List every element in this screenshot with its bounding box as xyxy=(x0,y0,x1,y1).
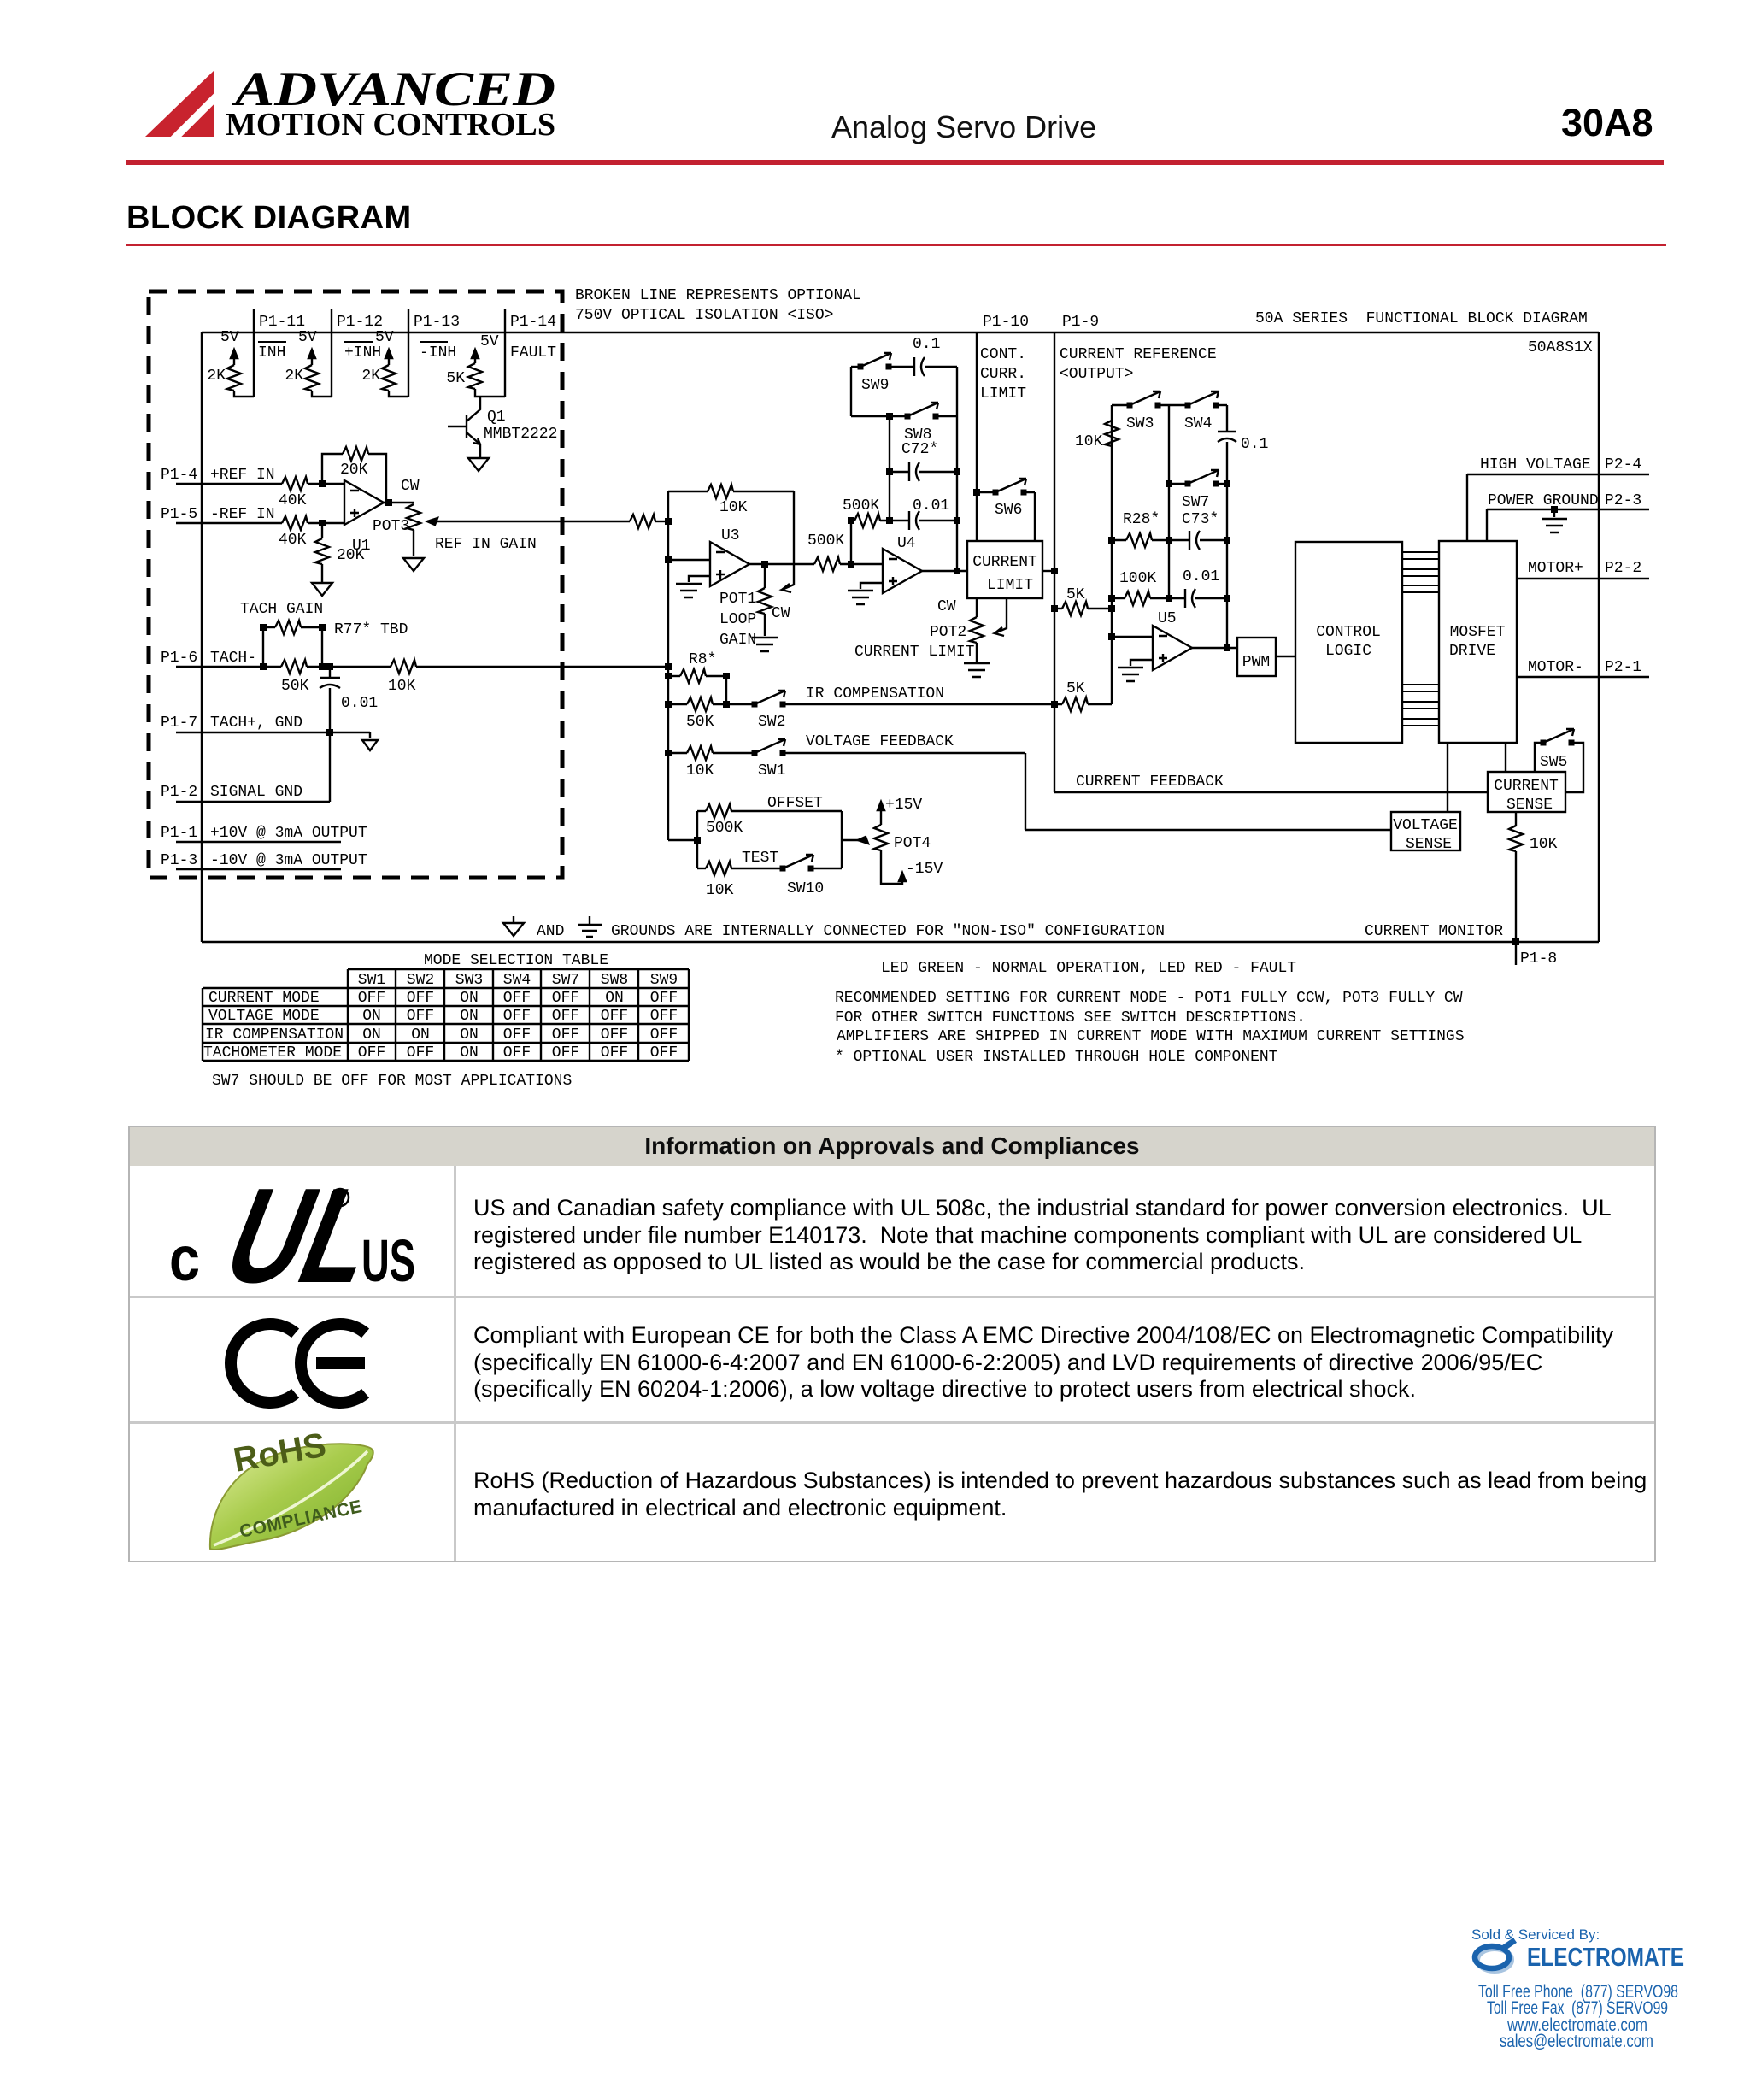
svg-text:2K: 2K xyxy=(361,368,380,385)
svg-text:10K: 10K xyxy=(388,678,416,695)
svg-text:RECOMMENDED SETTING FOR CURREN: RECOMMENDED SETTING FOR CURRENT MODE - P… xyxy=(835,990,1463,1007)
svg-text:FAULT: FAULT xyxy=(510,344,556,362)
svg-text:OFF: OFF xyxy=(407,1008,434,1025)
svg-text:ON: ON xyxy=(460,1026,479,1044)
svg-text:sales@electromate.com: sales@electromate.com xyxy=(1500,2032,1653,2051)
svg-text:-15V: -15V xyxy=(906,861,943,878)
svg-text:SW2: SW2 xyxy=(407,972,434,989)
svg-text:ELECTROMATE: ELECTROMATE xyxy=(1527,1942,1684,1972)
svg-text:P1-6: P1-6 xyxy=(161,650,197,667)
svg-text:Sold & Serviced By:: Sold & Serviced By: xyxy=(1471,1926,1600,1943)
svg-text:-INH: -INH xyxy=(420,344,456,362)
svg-text:5V: 5V xyxy=(480,333,499,350)
svg-text:POT3: POT3 xyxy=(373,518,409,535)
svg-text:ON: ON xyxy=(362,1026,381,1044)
svg-text:GROUNDS ARE INTERNALLY CONNECT: GROUNDS ARE INTERNALLY CONNECTED FOR "NO… xyxy=(611,923,1165,940)
svg-text:500K: 500K xyxy=(843,497,879,515)
svg-text:SW4: SW4 xyxy=(1184,415,1212,432)
svg-text:INH: INH xyxy=(258,344,285,362)
svg-text:P2-2: P2-2 xyxy=(1605,560,1641,577)
svg-text:OFF: OFF xyxy=(407,990,434,1007)
svg-text:GAIN: GAIN xyxy=(719,632,756,649)
svg-text:SENSE: SENSE xyxy=(1406,836,1452,853)
svg-text:TACH+, GND: TACH+, GND xyxy=(210,715,302,732)
svg-text:SW8: SW8 xyxy=(601,972,628,989)
svg-text:MOSFET: MOSFET xyxy=(1450,624,1506,641)
svg-text:5V: 5V xyxy=(375,329,394,346)
svg-text:ON: ON xyxy=(460,990,479,1007)
svg-text:ON: ON xyxy=(460,1044,479,1062)
svg-text:OFF: OFF xyxy=(650,1044,678,1062)
svg-text:40K: 40K xyxy=(279,492,307,509)
svg-text:U5: U5 xyxy=(1158,610,1177,627)
svg-text:AMPLIFIERS ARE SHIPPED IN CURR: AMPLIFIERS ARE SHIPPED IN CURRENT MODE W… xyxy=(837,1028,1465,1045)
svg-text:SW2: SW2 xyxy=(758,714,785,731)
svg-text:-REF IN: -REF IN xyxy=(210,506,275,523)
svg-text:MOTOR+: MOTOR+ xyxy=(1528,560,1583,577)
svg-text:P1-3: P1-3 xyxy=(161,852,197,869)
svg-text:5V: 5V xyxy=(220,329,239,346)
svg-text:ON: ON xyxy=(411,1026,430,1044)
svg-text:+INH: +INH xyxy=(344,344,381,362)
svg-text:* OPTIONAL USER INSTALLED THRO: * OPTIONAL USER INSTALLED THROUGH HOLE C… xyxy=(835,1049,1278,1066)
svg-text:SW3: SW3 xyxy=(1126,415,1154,432)
svg-text:LIMIT: LIMIT xyxy=(987,577,1033,594)
svg-text:REF IN GAIN: REF IN GAIN xyxy=(435,536,537,553)
svg-text:SW5: SW5 xyxy=(1540,754,1567,771)
svg-text:PWM: PWM xyxy=(1242,654,1270,671)
svg-text:OFF: OFF xyxy=(601,1008,628,1025)
svg-text:CW: CW xyxy=(401,478,420,495)
svg-text:SW8: SW8 xyxy=(904,426,931,444)
svg-text:OFF: OFF xyxy=(358,1044,385,1062)
svg-text:P1-11: P1-11 xyxy=(259,314,305,331)
svg-text:50K: 50K xyxy=(281,678,309,695)
svg-text:CW: CW xyxy=(937,598,956,615)
svg-text:CURR.: CURR. xyxy=(980,366,1026,383)
svg-text:OFF: OFF xyxy=(503,990,531,1007)
svg-text:AND: AND xyxy=(537,923,564,940)
svg-text:0.1: 0.1 xyxy=(913,336,940,353)
svg-text:P1-10: P1-10 xyxy=(983,314,1029,331)
svg-text:VOLTAGE: VOLTAGE xyxy=(1393,817,1458,834)
svg-text:CURRENT MODE: CURRENT MODE xyxy=(208,990,320,1007)
svg-text:SW7: SW7 xyxy=(552,972,579,989)
svg-text:U4: U4 xyxy=(897,535,916,552)
svg-text:c: c xyxy=(169,1223,200,1294)
svg-text:SW4: SW4 xyxy=(503,972,531,989)
svg-text:SW3: SW3 xyxy=(455,972,483,989)
svg-text:5K: 5K xyxy=(1066,586,1085,603)
svg-text:20K: 20K xyxy=(340,462,368,479)
svg-text:ON: ON xyxy=(362,1008,381,1025)
svg-text:750V OPTICAL ISOLATION <ISO>: 750V OPTICAL ISOLATION <ISO> xyxy=(575,307,833,324)
svg-text:P1-13: P1-13 xyxy=(414,314,460,331)
svg-text:FOR OTHER SWITCH FUNCTIONS SEE: FOR OTHER SWITCH FUNCTIONS SEE SWITCH DE… xyxy=(835,1009,1306,1026)
svg-text:SW9: SW9 xyxy=(650,972,678,989)
svg-text:OFF: OFF xyxy=(358,990,385,1007)
svg-text:OFF: OFF xyxy=(552,1008,579,1025)
svg-text:LOOP: LOOP xyxy=(719,611,756,628)
svg-text:CURRENT: CURRENT xyxy=(1494,778,1559,795)
svg-text:OFF: OFF xyxy=(503,1044,531,1062)
svg-text:CW: CW xyxy=(772,605,790,622)
svg-text:2K: 2K xyxy=(207,368,226,385)
svg-text:P1-8: P1-8 xyxy=(1520,950,1557,968)
svg-text:OFF: OFF xyxy=(601,1026,628,1044)
svg-text:P1-9: P1-9 xyxy=(1062,314,1099,331)
svg-text:500K: 500K xyxy=(706,820,743,837)
svg-text:SW1: SW1 xyxy=(358,972,385,989)
svg-text:50A SERIES FUNCTIONAL BLOCK D: 50A SERIES FUNCTIONAL BLOCK DIAGRAM xyxy=(1255,310,1588,327)
svg-text:ON: ON xyxy=(460,1008,479,1025)
svg-text:R: R xyxy=(337,1191,345,1204)
svg-text:TEST: TEST xyxy=(742,850,778,867)
svg-text:CURRENT MONITOR: CURRENT MONITOR xyxy=(1365,923,1503,940)
svg-text:CONT.: CONT. xyxy=(980,346,1026,363)
svg-text:SW10: SW10 xyxy=(787,880,824,897)
svg-text:SW6: SW6 xyxy=(995,502,1022,519)
svg-text:IR COMPENSATION: IR COMPENSATION xyxy=(205,1026,344,1044)
svg-text:2K: 2K xyxy=(285,368,303,385)
svg-text:OFF: OFF xyxy=(503,1026,531,1044)
svg-text:TACHOMETER MODE: TACHOMETER MODE xyxy=(203,1044,342,1062)
svg-text:CURRENT FEEDBACK: CURRENT FEEDBACK xyxy=(1076,774,1224,791)
svg-text:HIGH VOLTAGE: HIGH VOLTAGE xyxy=(1480,456,1591,474)
svg-text:MMBT2222: MMBT2222 xyxy=(484,426,557,443)
svg-text:POT4: POT4 xyxy=(894,835,931,852)
svg-text:LIMIT: LIMIT xyxy=(980,385,1026,403)
svg-text:5K: 5K xyxy=(1066,680,1085,697)
svg-text:MOTION CONTROLS: MOTION CONTROLS xyxy=(226,107,555,143)
svg-text:50A8S1X: 50A8S1X xyxy=(1528,339,1593,356)
svg-text:P2-1: P2-1 xyxy=(1605,659,1641,676)
svg-text:CURRENT LIMIT: CURRENT LIMIT xyxy=(854,644,975,661)
svg-text:U1: U1 xyxy=(352,538,371,555)
svg-text:0.01: 0.01 xyxy=(913,497,949,515)
svg-text:P1-14: P1-14 xyxy=(510,314,556,331)
svg-text:TACH-: TACH- xyxy=(210,650,256,667)
svg-text:P1-5: P1-5 xyxy=(161,506,197,523)
svg-text:P1-7: P1-7 xyxy=(161,715,197,732)
svg-text:VOLTAGE FEEDBACK: VOLTAGE FEEDBACK xyxy=(806,733,954,750)
svg-text:SENSE: SENSE xyxy=(1506,797,1553,814)
svg-text:CONTROL: CONTROL xyxy=(1316,624,1381,641)
svg-text:P2-4: P2-4 xyxy=(1605,456,1641,474)
svg-text:50K: 50K xyxy=(686,714,714,731)
svg-text:POWER GROUND: POWER GROUND xyxy=(1488,492,1599,509)
svg-text:R77* TBD: R77* TBD xyxy=(334,621,408,638)
svg-text:10K: 10K xyxy=(1075,433,1103,450)
svg-text:-10V @ 3mA OUTPUT: -10V @ 3mA OUTPUT xyxy=(210,852,367,869)
svg-text:CURRENT: CURRENT xyxy=(972,554,1037,571)
svg-text:DRIVE: DRIVE xyxy=(1449,643,1495,660)
svg-text:P1-2: P1-2 xyxy=(161,784,197,801)
svg-text:VOLTAGE MODE: VOLTAGE MODE xyxy=(208,1008,320,1025)
svg-text:R28*: R28* xyxy=(1123,511,1160,528)
svg-text:OFF: OFF xyxy=(552,990,579,1007)
svg-text:ON: ON xyxy=(605,990,624,1007)
svg-text:10K: 10K xyxy=(686,762,714,779)
svg-text:P1-1: P1-1 xyxy=(161,825,197,842)
svg-text:P1-12: P1-12 xyxy=(337,314,383,331)
svg-text:IR COMPENSATION: IR COMPENSATION xyxy=(806,685,944,703)
svg-text:5V: 5V xyxy=(298,329,317,346)
svg-text:10K: 10K xyxy=(706,882,734,899)
svg-text:R8*: R8* xyxy=(689,651,716,668)
svg-text:5K: 5K xyxy=(446,370,465,387)
svg-text:OFF: OFF xyxy=(503,1008,531,1025)
svg-text:OFF: OFF xyxy=(407,1044,434,1062)
svg-text:POT2: POT2 xyxy=(930,624,966,641)
svg-text:+10V @ 3mA OUTPUT: +10V @ 3mA OUTPUT xyxy=(210,825,367,842)
svg-text:0.01: 0.01 xyxy=(341,695,378,712)
svg-text:10K: 10K xyxy=(719,499,748,516)
svg-text:US: US xyxy=(361,1227,415,1294)
svg-text:SIGNAL GND: SIGNAL GND xyxy=(210,784,302,801)
svg-text:40K: 40K xyxy=(279,532,307,549)
svg-text:P1-4: P1-4 xyxy=(161,467,197,484)
svg-text:MODE SELECTION TABLE: MODE SELECTION TABLE xyxy=(424,952,608,969)
svg-text:C72*: C72* xyxy=(901,441,938,458)
svg-text:CURRENT REFERENCE: CURRENT REFERENCE xyxy=(1060,346,1217,363)
svg-text:Q1: Q1 xyxy=(487,409,506,426)
svg-text:10K: 10K xyxy=(1530,836,1558,853)
svg-text:0.01: 0.01 xyxy=(1183,568,1219,585)
svg-text:SW7 SHOULD BE OFF FOR MOST APP: SW7 SHOULD BE OFF FOR MOST APPLICATIONS xyxy=(212,1073,572,1090)
svg-text:BROKEN LINE REPRESENTS OPTIONA: BROKEN LINE REPRESENTS OPTIONAL xyxy=(575,287,861,304)
svg-text:SW9: SW9 xyxy=(861,377,889,394)
svg-text:500K: 500K xyxy=(807,532,844,550)
svg-text:P2-3: P2-3 xyxy=(1605,492,1641,509)
svg-text:LOGIC: LOGIC xyxy=(1325,643,1371,660)
svg-text:SW7: SW7 xyxy=(1182,494,1209,511)
svg-text:+15V: +15V xyxy=(885,797,922,814)
svg-text:MOTOR-: MOTOR- xyxy=(1528,659,1583,676)
svg-text:0.1: 0.1 xyxy=(1241,436,1268,453)
svg-text:100K: 100K xyxy=(1119,570,1156,587)
svg-text:TACH GAIN: TACH GAIN xyxy=(240,601,323,618)
svg-text:OFF: OFF xyxy=(650,1008,678,1025)
svg-text:OFF: OFF xyxy=(650,990,678,1007)
svg-text:OFF: OFF xyxy=(650,1026,678,1044)
svg-text:POT1: POT1 xyxy=(719,591,756,608)
svg-text:SW1: SW1 xyxy=(758,762,785,779)
svg-text:+REF IN: +REF IN xyxy=(210,467,275,484)
svg-text:LED GREEN - NORMAL OPERATION,: LED GREEN - NORMAL OPERATION, LED RED - … xyxy=(881,960,1296,977)
svg-text:C73*: C73* xyxy=(1182,511,1219,528)
svg-text:OFFSET: OFFSET xyxy=(767,795,823,812)
svg-text:U3: U3 xyxy=(721,527,740,544)
svg-text:<OUTPUT>: <OUTPUT> xyxy=(1060,366,1133,383)
svg-text:OFF: OFF xyxy=(552,1044,579,1062)
svg-text:OFF: OFF xyxy=(552,1026,579,1044)
svg-text:OFF: OFF xyxy=(601,1044,628,1062)
